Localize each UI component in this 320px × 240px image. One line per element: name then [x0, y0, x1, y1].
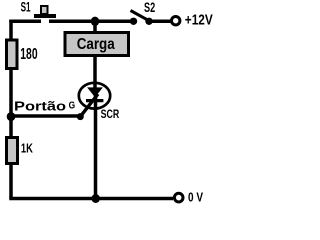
wire top right segment: [149, 20, 172, 24]
svg-text:S1: S1: [21, 0, 31, 15]
load box Carga: [65, 33, 129, 56]
wire left rail: [9, 20, 13, 199]
resistor 180: [7, 40, 18, 69]
switch S1 bridge bar: [34, 14, 56, 18]
svg-text:0 V: 0 V: [188, 191, 204, 205]
svg-text:S2: S2: [144, 0, 155, 15]
switch S2 arm: [131, 11, 149, 21]
wire Portao gate: [11, 114, 80, 118]
wire top middle segment: [49, 20, 134, 24]
svg-text:1K: 1K: [21, 140, 33, 155]
SCR body circle: [79, 83, 110, 109]
node junction above Carga: [91, 17, 100, 26]
SCR anode triangle: [87, 87, 103, 97]
svg-text:Portão: Portão: [14, 99, 66, 114]
SCR cathode bar: [86, 99, 103, 102]
wire junction to Carga: [93, 21, 97, 33]
terminal +12V: [172, 17, 180, 25]
wire top left segment: [9, 20, 41, 24]
resistor 1K: [7, 138, 18, 164]
svg-text:G: G: [69, 99, 76, 111]
SCR gate line: [80, 94, 98, 117]
wire Carga to SCR anode: [93, 57, 97, 90]
SCR cathode wire down: [94, 93, 98, 199]
node gate dot: [77, 113, 84, 120]
switch S2 left contact: [130, 18, 137, 25]
wire bottom: [9, 197, 173, 201]
svg-text:180: 180: [20, 46, 37, 63]
svg-text:+12V: +12V: [185, 11, 213, 28]
svg-text:SCR: SCR: [101, 107, 120, 121]
svg-text:Carga: Carga: [77, 36, 115, 53]
switch S2 right contact: [145, 18, 152, 25]
node bottom junction: [91, 194, 100, 203]
node rail junction: [7, 112, 16, 121]
switch S1 plunger: [41, 6, 48, 14]
terminal 0V: [174, 193, 183, 202]
